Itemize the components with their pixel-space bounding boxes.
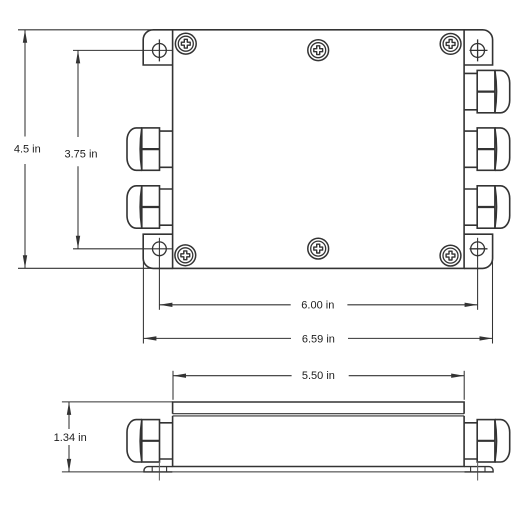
cable gland right 1 [464, 70, 510, 112]
dimension 5.50 in (body width, side view) [173, 371, 464, 400]
dimension 6.00 in (hole spacing, bottom) [159, 238, 477, 310]
side view: lid seam lines [173, 414, 465, 416]
dimension 6.59 in (overall width, bottom) [143, 255, 492, 344]
mounting hole bottom-left [153, 242, 167, 256]
lid screw top-middle [308, 40, 329, 61]
cable gland left 2 [127, 186, 173, 228]
lid screw top-right [440, 34, 461, 55]
mounting hole top-left [153, 39, 167, 61]
svg-text:6.59 in: 6.59 in [302, 333, 335, 345]
cable gland left 1 [127, 128, 173, 170]
side view: foot hole centerline left [158, 462, 160, 481]
side view: foot hole centerline right [477, 462, 479, 481]
svg-text:4.5 in: 4.5 in [14, 144, 41, 156]
mounting tab bottom-left [143, 234, 172, 268]
dimension 3.75 in (hole spacing, left) [73, 50, 173, 248]
svg-text:6.00 in: 6.00 in [301, 299, 334, 311]
side view: enclosure body [173, 416, 465, 467]
enclosure body (top view) [173, 30, 465, 269]
dimension 1.34 in (height, side view) [62, 402, 493, 472]
side view: mounting foot left [144, 467, 172, 472]
side view: lid [173, 402, 465, 414]
lid screw bottom-middle [308, 238, 329, 259]
lid screw bottom-right [440, 245, 461, 266]
svg-text:3.75 in: 3.75 in [64, 149, 97, 161]
mounting hole bottom-right [470, 242, 488, 256]
mounting hole top-right [470, 39, 488, 61]
side view: cable gland right [464, 420, 510, 462]
lid screw top-left [175, 33, 196, 54]
lid screw bottom-left [175, 245, 196, 266]
cable gland right 2 [464, 128, 510, 170]
mounting tab top-left [143, 30, 172, 65]
svg-text:1.34 in: 1.34 in [54, 432, 87, 444]
dimension 4.5 in (overall height, left) [18, 30, 152, 268]
side view: cable gland left [127, 420, 173, 462]
mounting tab top-right [464, 30, 493, 65]
cable gland right 3 [464, 186, 510, 228]
side view: mounting foot right [465, 467, 494, 472]
svg-text:5.50 in: 5.50 in [302, 370, 335, 382]
mounting tab bottom-right [464, 234, 493, 268]
